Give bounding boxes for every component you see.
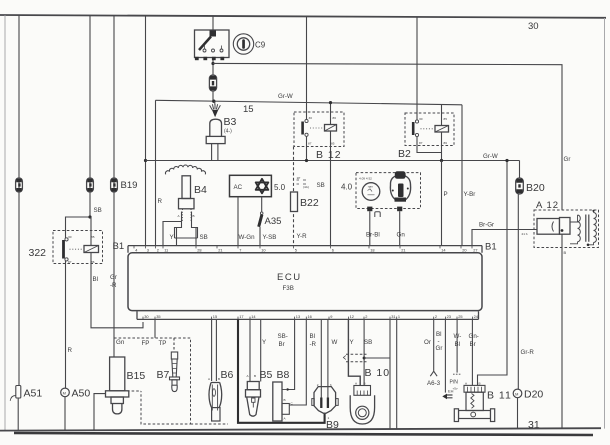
- svg-text:B: B: [564, 250, 567, 255]
- temp sensor B5: [246, 369, 273, 416]
- scan shadow: [14, 433, 593, 435]
- svg-text:FP: FP: [142, 340, 150, 347]
- connector 1P marks above B22: [297, 176, 309, 189]
- svg-text:4.0: 4.0: [341, 183, 353, 192]
- svg-text:86: 86: [444, 141, 448, 145]
- svg-text:1: 1: [398, 314, 400, 319]
- svg-text:A: A: [355, 382, 358, 386]
- sensor B4 body: [175, 176, 208, 238]
- svg-text:B9: B9: [326, 419, 339, 431]
- wire A51 to bus 31: [17, 398, 19, 431]
- wire Bl-Gr to EH connector: [444, 319, 446, 392]
- svg-text:11: 11: [164, 248, 168, 253]
- injector B7: [157, 338, 180, 392]
- wire P from rail to ECU pin 14: [441, 161, 443, 246]
- wires to B10: [348, 319, 360, 385]
- svg-text:B6: B6: [221, 369, 234, 381]
- svg-text:31: 31: [391, 314, 395, 319]
- wire A50 to bus 31: [64, 397, 66, 431]
- wire Br-Bl to ECU pin 18: [369, 211, 371, 245]
- shielded wire ECU pin 17 to B9: [238, 319, 325, 422]
- svg-text:A50: A50: [72, 388, 91, 400]
- svg-text:D20: D20: [524, 389, 543, 401]
- svg-text:2: 2: [365, 314, 367, 319]
- svg-text:A35: A35: [265, 216, 282, 227]
- svg-text:Gr-R: Gr-R: [521, 349, 535, 356]
- wire 322 feed from bus 30: [66, 15, 91, 238]
- svg-text:87: 87: [419, 141, 423, 145]
- svg-text:27: 27: [473, 248, 477, 253]
- svg-text:28: 28: [197, 248, 201, 253]
- junction 15 node: [212, 100, 215, 103]
- svg-text:Gn: Gn: [116, 339, 125, 346]
- svg-text:F3B: F3B: [283, 285, 294, 292]
- wire Or to connector A6-3: [433, 319, 435, 370]
- svg-text:W: W: [332, 339, 338, 346]
- wire fuse to 15 line: [212, 91, 214, 101]
- relay B12: [294, 16, 344, 245]
- B2 contact wire from bus 30: [416, 17, 418, 120]
- svg-text:Y: Y: [262, 339, 266, 346]
- svg-text:Gr-W: Gr-W: [483, 153, 498, 160]
- junction rail node: [144, 159, 147, 162]
- wire B4 Y to ECU pin 28: [176, 228, 178, 246]
- temp sensor B5 wires: [250, 319, 261, 381]
- svg-text:A: A: [284, 417, 287, 421]
- fuse on A51 wire: [16, 178, 23, 192]
- A12 core: [586, 215, 589, 242]
- svg-text:85: 85: [91, 235, 95, 239]
- svg-text:30: 30: [419, 117, 423, 121]
- sensor B10: [350, 367, 390, 424]
- svg-text:A 12: A 12: [536, 200, 559, 211]
- svg-text:23: 23: [447, 314, 451, 319]
- svg-text:7: 7: [239, 248, 241, 253]
- throttle switch B8: [273, 369, 294, 421]
- svg-text:25: 25: [458, 314, 462, 319]
- injector group dashed box: [114, 338, 228, 424]
- svg-text:15: 15: [243, 104, 254, 115]
- ignition unit A12: [522, 200, 599, 255]
- C9 contacts: [203, 49, 206, 52]
- injector B3: [206, 101, 236, 160]
- ignition switch C9: [195, 30, 266, 60]
- wire A51 drop from bus 30: [18, 15, 20, 386]
- distributor unit: [390, 176, 410, 201]
- svg-text:SB: SB: [200, 234, 208, 241]
- svg-text:B 10: B 10: [365, 367, 391, 379]
- antenna A51: [10, 386, 42, 401]
- AC switch box: [230, 175, 286, 196]
- fuse B19: [111, 178, 118, 192]
- svg-text:-R: -R: [310, 341, 317, 348]
- wire B4 SB to ECU: [195, 228, 197, 246]
- svg-text:B3: B3: [224, 116, 237, 128]
- svg-text:16: 16: [308, 314, 312, 319]
- wire D20 to bus 31: [517, 398, 519, 429]
- svg-text:Y: Y: [350, 339, 354, 346]
- svg-text:B 12: B 12: [316, 149, 342, 161]
- ECU connector bracket top B1: [128, 246, 482, 253]
- Gr wire to A12: [213, 63, 562, 210]
- B12 contact wire from bus 30: [306, 16, 308, 119]
- svg-text:Gn-: Gn-: [469, 333, 479, 340]
- svg-text:9: 9: [330, 314, 332, 319]
- B2 pin 87 wire: [417, 137, 442, 153]
- B2 coil wire to rail: [441, 132, 443, 161]
- svg-text:87: 87: [68, 260, 72, 264]
- svg-text:Br-Gr: Br-Gr: [479, 222, 494, 229]
- switch A35: [259, 197, 282, 227]
- svg-text:3: 3: [147, 248, 149, 253]
- svg-text:B5: B5: [260, 369, 273, 381]
- Gr-W rail wire: [146, 160, 520, 162]
- svg-text:20: 20: [462, 248, 467, 253]
- svg-text:Y-SB: Y-SB: [263, 234, 277, 241]
- svg-text:2: 2: [157, 248, 159, 253]
- svg-text:30: 30: [68, 235, 72, 239]
- instrument cluster dashed box: [341, 171, 421, 217]
- svg-text:TP: TP: [159, 340, 167, 347]
- throttle unit B9: [312, 387, 339, 431]
- fuse on 322 feed wire: [87, 178, 94, 192]
- svg-text:ECU: ECU: [277, 272, 302, 283]
- svg-text:W-Gn: W-Gn: [239, 234, 256, 241]
- svg-text:SB-: SB-: [278, 333, 288, 340]
- snowflake: [256, 179, 269, 190]
- svg-text:14: 14: [251, 314, 256, 319]
- fuse main below C9: [209, 75, 216, 91]
- B12 coil wire SB to ECU pin 6: [330, 131, 332, 246]
- svg-text:Or: Or: [424, 339, 431, 346]
- ECU bottom pin ticks and numbers: [143, 314, 479, 320]
- wire ECU pin 31 to bus 31: [389, 319, 391, 429]
- wire B19 drop from bus 30: [113, 15, 115, 357]
- wire 322 coil to ECU pin 30 (Bl): [91, 217, 143, 328]
- idle valve B11: [454, 382, 512, 422]
- svg-text:14: 14: [441, 248, 446, 253]
- junction SB node: [88, 215, 91, 218]
- svg-text:Y-R: Y-R: [297, 233, 308, 240]
- svg-text:-: -: [438, 338, 440, 345]
- wire A35 Y-SB to ECU pin 10: [259, 227, 261, 246]
- svg-text:86: 86: [333, 116, 337, 120]
- wire Gn-Br to B11: [471, 319, 473, 385]
- svg-text:5.0: 5.0: [274, 183, 286, 192]
- ECU F3B box: [128, 253, 482, 311]
- svg-text:17: 17: [239, 314, 243, 319]
- svg-text:B1: B1: [485, 242, 497, 253]
- svg-text:A: A: [178, 214, 181, 218]
- 15 line wire: [156, 100, 463, 105]
- B2 coil: [441, 105, 443, 126]
- right border wire: [604, 18, 606, 429]
- svg-text:2: 2: [435, 314, 437, 319]
- svg-text:B2: B2: [398, 148, 411, 160]
- A12 primary winding: [578, 215, 581, 242]
- svg-text:(4A): (4A): [303, 185, 309, 189]
- bus 31 (bottom ground rail): [0, 428, 601, 430]
- svg-text:31: 31: [528, 419, 540, 431]
- wire bus30 to ECU pin 3: [145, 16, 147, 246]
- svg-text:AC: AC: [234, 184, 243, 191]
- resistor B22: [291, 192, 298, 212]
- svg-text:B15: B15: [127, 370, 146, 382]
- svg-text:SB: SB: [364, 339, 372, 346]
- wire B11 feed from rail: [478, 161, 508, 386]
- wire ECU pin 1 to bus 31: [396, 319, 398, 429]
- svg-text:R: R: [158, 198, 163, 205]
- svg-text:15: 15: [213, 314, 217, 319]
- connector P/N: [450, 374, 462, 390]
- ECU connector bracket bottom: [137, 311, 479, 319]
- svg-text:Br-Bl: Br-Bl: [366, 232, 380, 239]
- wire ECU pin 35 to injector box: [154, 319, 156, 337]
- svg-text:B 11: B 11: [487, 390, 512, 402]
- C9 key circle: [233, 34, 253, 54]
- svg-text:Gr-W: Gr-W: [278, 93, 293, 100]
- wire ECU pin 27 to A12 (Br-Gr): [472, 230, 537, 246]
- svg-text:Br: Br: [470, 341, 476, 348]
- svg-text:A: A: [208, 377, 211, 381]
- wire Y-R dashed from B12 to B22/ECU pin 5: [293, 147, 295, 246]
- fuse B20: [516, 161, 545, 195]
- svg-text:6: 6: [332, 248, 334, 253]
- throttle switch B8 wires: [289, 319, 295, 389]
- svg-text:Br: Br: [279, 341, 285, 348]
- svg-text:W-: W-: [454, 333, 462, 340]
- svg-text:B19: B19: [121, 180, 138, 191]
- svg-text:Gr: Gr: [564, 156, 571, 163]
- svg-text:B1: B1: [113, 241, 125, 252]
- motor D20: [513, 389, 543, 401]
- ECU top pin ticks and numbers: [134, 246, 478, 253]
- C9 lever: [199, 37, 211, 51]
- svg-text:Y-Br: Y-Br: [464, 191, 476, 198]
- svg-text:rpm: rpm: [368, 185, 374, 189]
- wire AC W-Gn to ECU pin 7: [237, 197, 239, 246]
- svg-text:B7: B7: [157, 369, 170, 381]
- B12 coil: [330, 103, 332, 125]
- wire A50 from relay 322 pin 87: [65, 261, 67, 388]
- connector pads: [367, 207, 372, 212]
- svg-text:B8: B8: [277, 369, 290, 381]
- wire B15 ground to bus 31: [94, 394, 106, 431]
- wire A12 output to bus 31: [561, 234, 563, 428]
- svg-text:4.09 4 52: 4.09 4 52: [359, 177, 372, 181]
- left border wire: [4, 15, 6, 430]
- svg-text:85: 85: [331, 142, 335, 146]
- svg-text:C9: C9: [255, 41, 266, 50]
- sensor B4 toothed wheel: [165, 165, 205, 174]
- svg-text:35: 35: [156, 314, 160, 319]
- svg-text:M: M: [63, 391, 66, 396]
- svg-text:A6-3: A6-3: [427, 380, 441, 387]
- relay B2: [398, 17, 454, 162]
- svg-text:B: B: [193, 214, 195, 218]
- wire Gr-R from B20 to D20: [517, 194, 519, 389]
- junction to ground wire: [363, 357, 366, 360]
- svg-text:Bl: Bl: [455, 341, 461, 348]
- connector A6-3: [430, 371, 437, 376]
- idle contact B9 wires: [321, 319, 328, 397]
- svg-text:Bl: Bl: [436, 331, 442, 338]
- svg-text:21: 21: [401, 248, 405, 253]
- svg-text:B20: B20: [526, 182, 545, 194]
- svg-text:21 b: 21 b: [522, 232, 528, 236]
- svg-text:30: 30: [528, 21, 539, 32]
- svg-text:10: 10: [261, 248, 266, 253]
- svg-text:Y: Y: [170, 234, 174, 241]
- svg-text:87: 87: [308, 142, 312, 146]
- svg-text:M: M: [515, 392, 518, 397]
- svg-text:322: 322: [29, 247, 47, 259]
- svg-text:30: 30: [309, 116, 313, 120]
- svg-text:Bl: Bl: [93, 276, 99, 283]
- relay 322: [29, 231, 103, 265]
- svg-text:Gr: Gr: [436, 345, 443, 352]
- svg-text:P: P: [444, 191, 448, 198]
- wire Y-Br from 15 line to ECU pin 20: [461, 105, 463, 246]
- svg-text:SB: SB: [317, 182, 325, 189]
- connector dashes on B10 wires: [346, 354, 367, 362]
- svg-text:Bl: Bl: [310, 333, 316, 340]
- svg-text:R: R: [68, 347, 73, 354]
- injector B15: [106, 357, 146, 414]
- wire R from 15-line to ECU pin 2: [155, 100, 157, 245]
- fuel pump A50: [61, 388, 91, 400]
- svg-text:Gr: Gr: [110, 274, 117, 281]
- junction Gr node: [211, 62, 214, 65]
- wire W-Bl to P/N connector: [456, 319, 458, 372]
- svg-text:A: A: [247, 374, 250, 378]
- svg-text:85: 85: [444, 117, 448, 121]
- svg-text:B22: B22: [300, 197, 319, 209]
- wire B4 jog to ECU pin 11: [163, 222, 182, 246]
- svg-text:Gn: Gn: [397, 232, 406, 239]
- svg-text:-R: -R: [110, 282, 117, 289]
- lambda sensor B6 wires: [212, 319, 217, 381]
- svg-text:12: 12: [350, 314, 354, 319]
- A12 secondary winding: [594, 213, 597, 243]
- tachometer gauge: [362, 183, 380, 201]
- lambda sensor B6: [209, 369, 234, 421]
- wire Gn to ECU pin 21: [399, 211, 401, 245]
- svg-text:B4: B4: [194, 184, 207, 196]
- wire C9 output down: [212, 58, 214, 76]
- wire C9 from bus 30: [212, 16, 214, 30]
- svg-text:(4-): (4-): [224, 129, 232, 135]
- svg-text:B: B: [284, 398, 286, 402]
- svg-text:1P: 1P: [297, 176, 301, 180]
- B4 pedestal: [175, 212, 198, 239]
- svg-text:B: B: [254, 374, 256, 378]
- C9 terminals: [195, 57, 199, 60]
- svg-text:SB: SB: [94, 207, 102, 214]
- svg-text:A51: A51: [24, 388, 43, 400]
- svg-text:18: 18: [370, 248, 374, 253]
- pi mark: [375, 212, 380, 217]
- svg-text:86: 86: [91, 260, 95, 264]
- svg-text:4: 4: [135, 248, 138, 253]
- svg-text:+5v: +5v: [453, 387, 459, 391]
- bus 30 (top supply rail): [0, 15, 606, 18]
- svg-text:P/N: P/N: [450, 380, 459, 386]
- svg-text:30: 30: [144, 314, 149, 319]
- svg-text:21: 21: [218, 248, 222, 253]
- svg-text:B: B: [364, 382, 366, 386]
- svg-text:5: 5: [295, 248, 297, 253]
- svg-text:13: 13: [296, 314, 300, 319]
- connector EH: [442, 389, 453, 400]
- B12 pin 87 wire to rail: [306, 136, 308, 160]
